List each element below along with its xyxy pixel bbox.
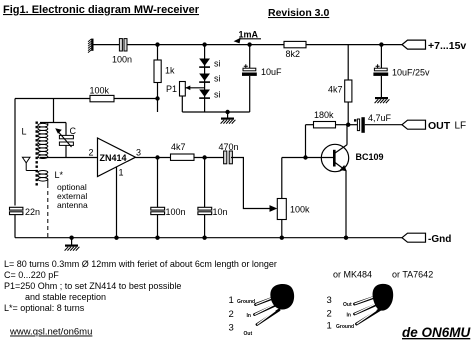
- svg-text:L*: L*: [55, 170, 64, 180]
- coil L*: [38, 171, 48, 185]
- svg-text:and stable reception: and stable reception: [25, 292, 106, 302]
- wire pin3 to 4k7: [136, 157, 171, 159]
- potentiometer 100k: [277, 158, 286, 238]
- svg-text:Ground: Ground: [336, 324, 354, 330]
- svg-text:LF: LF: [455, 121, 467, 132]
- svg-text:OUT: OUT: [428, 120, 451, 132]
- svg-text:4,7uF: 4,7uF: [368, 113, 392, 123]
- terminal +7...15v: [402, 40, 426, 49]
- svg-text:1mA: 1mA: [239, 30, 259, 40]
- ground right: [375, 97, 390, 103]
- node collector: [346, 123, 350, 127]
- pinout package 2 leads: [355, 295, 382, 324]
- svg-text:100k: 100k: [290, 205, 310, 215]
- notes text: [4, 259, 277, 313]
- resistor 180k: [314, 122, 336, 128]
- node ground rail: [225, 110, 229, 114]
- ferrite rod: [36, 122, 38, 187]
- svg-text:1: 1: [119, 168, 124, 178]
- svg-text:L: L: [22, 127, 27, 137]
- svg-text:ZN414: ZN414: [100, 153, 127, 163]
- diode D2 si: [199, 74, 210, 83]
- svg-text:antenna: antenna: [57, 200, 88, 210]
- node top rail at 10uF: [247, 42, 251, 46]
- svg-text:P1=250 Ohm ; to set ZN414 to b: P1=250 Ohm ; to set ZN414 to best possib…: [4, 281, 181, 291]
- svg-text:Fig1. Electronic diagram MW-re: Fig1. Electronic diagram MW-receiver: [3, 4, 200, 16]
- svg-text:Out: Out: [343, 302, 352, 308]
- svg-text:1k: 1k: [165, 66, 175, 76]
- capacitor 100n input: [119, 39, 127, 51]
- resistor 8k2: [284, 41, 306, 47]
- svg-text:Out: Out: [244, 331, 253, 337]
- svg-text:or TA7642: or TA7642: [392, 270, 433, 280]
- capacitor 10n: [198, 158, 212, 238]
- wire pot top to base: [282, 157, 334, 159]
- transistor Q1 BC109: [321, 125, 348, 238]
- svg-text:4k7: 4k7: [171, 142, 186, 152]
- svg-text:100n: 100n: [112, 55, 132, 65]
- chassis input symbol: [88, 39, 94, 53]
- node base 180k: [303, 155, 307, 159]
- node 10n: [202, 155, 206, 159]
- svg-text:100k: 100k: [90, 86, 110, 96]
- svg-text:+7...15v: +7...15v: [428, 40, 466, 52]
- wire collector node to C out: [348, 124, 358, 126]
- svg-text:2: 2: [229, 309, 234, 320]
- svg-text:In: In: [247, 313, 251, 319]
- ground bottom: [65, 238, 80, 251]
- svg-text:P1: P1: [166, 84, 177, 94]
- terminal OUT: [402, 120, 426, 129]
- capacitor 10uF: [242, 45, 257, 112]
- svg-text:si: si: [214, 90, 221, 100]
- wire 180k left leg: [305, 125, 307, 158]
- capacitor 22n: [10, 207, 23, 214]
- wire tuned circuit bottom to pin2: [40, 157, 98, 159]
- node 1k bottom: [155, 96, 159, 100]
- dashed wire L* to ground rail: [47, 184, 49, 237]
- node pin1 rail: [114, 236, 118, 240]
- svg-text:180k: 180k: [314, 110, 334, 120]
- wire 1k bottom to P1 rail: [157, 99, 159, 113]
- node top rail at 10uF/25v: [379, 42, 383, 46]
- svg-text:3: 3: [229, 322, 234, 333]
- ground mid: [221, 112, 236, 124]
- svg-text:2: 2: [89, 148, 94, 158]
- diode D1 si: [199, 45, 210, 112]
- svg-text:4k7: 4k7: [328, 85, 343, 95]
- capacitor 4,7uF: [354, 117, 402, 133]
- svg-text:si: si: [214, 59, 221, 69]
- svg-text:3: 3: [327, 295, 332, 306]
- svg-text:10n: 10n: [213, 207, 228, 217]
- svg-text:BC109: BC109: [356, 152, 384, 162]
- wiper arrow into 100k: [270, 205, 278, 212]
- wire bottom rail: [15, 237, 402, 239]
- coil L: [38, 123, 48, 159]
- note optional external antenna: [57, 182, 88, 210]
- wire left rail: [14, 99, 16, 238]
- diode D3 si: [199, 90, 210, 99]
- svg-text:www.qsl.net/on6mu: www.qsl.net/on6mu: [9, 327, 92, 338]
- op-amp U1 ZN414: [98, 138, 136, 177]
- svg-text:-Gnd: -Gnd: [428, 234, 451, 245]
- svg-text:1: 1: [327, 320, 332, 331]
- pinout package 1 leads: [255, 296, 281, 325]
- svg-text:100n: 100n: [166, 207, 186, 217]
- pinout package 1 body: [270, 284, 294, 310]
- svg-text:de ON6MU: de ON6MU: [402, 325, 472, 340]
- potentiometer P1: [180, 82, 205, 113]
- resistor 1k: [157, 45, 159, 99]
- wire tuned circuit top: [40, 99, 66, 123]
- svg-text:22n: 22n: [25, 207, 40, 217]
- capacitor 100n mid: [151, 158, 165, 238]
- node 100n rail: [155, 236, 159, 240]
- wire pin1 down: [116, 167, 118, 238]
- svg-text:C: C: [70, 126, 77, 136]
- node top rail at 1k: [155, 42, 159, 46]
- svg-text:10uF/25v: 10uF/25v: [392, 68, 430, 78]
- resistor 100k top: [90, 95, 114, 101]
- svg-text:470n: 470n: [219, 142, 239, 152]
- svg-text:In: In: [347, 313, 351, 319]
- capacitor 10uF/25v: [373, 45, 388, 97]
- pinout package 2 body: [373, 284, 394, 311]
- node 10n rail: [202, 236, 206, 240]
- svg-text:1: 1: [229, 295, 234, 306]
- svg-text:2: 2: [327, 309, 332, 320]
- wire top rail: [127, 44, 402, 46]
- node emitter rail: [344, 236, 348, 240]
- wire P1 ground rail: [182, 111, 249, 113]
- svg-text:C= 0...220 pF: C= 0...220 pF: [4, 270, 59, 280]
- wire 180k right to node: [336, 124, 349, 126]
- svg-text:Revision 3.0: Revision 3.0: [268, 7, 329, 19]
- svg-text:or MK484: or MK484: [333, 270, 372, 280]
- svg-text:8k2: 8k2: [286, 49, 301, 59]
- svg-text:3: 3: [136, 148, 141, 158]
- variable capacitor C: [55, 123, 73, 158]
- svg-text:L= 80 turns 0.3mm Ø 12mm with: L= 80 turns 0.3mm Ø 12mm with feriet of …: [4, 259, 277, 269]
- resistor 4k7 right: [345, 45, 352, 125]
- svg-text:si: si: [214, 74, 221, 84]
- svg-text:10uF: 10uF: [261, 67, 282, 77]
- antenna symbol: [22, 157, 38, 170]
- terminal -Gnd: [402, 233, 426, 242]
- wire 4k7 to 470n: [194, 157, 223, 159]
- current arrow 1mA: [234, 30, 261, 44]
- wire 470n down to wiper: [231, 158, 271, 209]
- svg-text:Ground: Ground: [237, 299, 255, 305]
- node top rail at diodes: [202, 42, 206, 46]
- node pot rail: [280, 236, 284, 240]
- node pin3 100n: [155, 155, 159, 159]
- svg-text:L*= optional: 8 turns: L*= optional: 8 turns: [4, 303, 85, 313]
- capacitor 470n: [224, 151, 233, 164]
- wire chassis to C 100n: [94, 44, 120, 46]
- resistor 4k7 mid: [171, 154, 195, 160]
- wire 100k rail: [15, 98, 158, 100]
- node gnd left: [69, 236, 73, 240]
